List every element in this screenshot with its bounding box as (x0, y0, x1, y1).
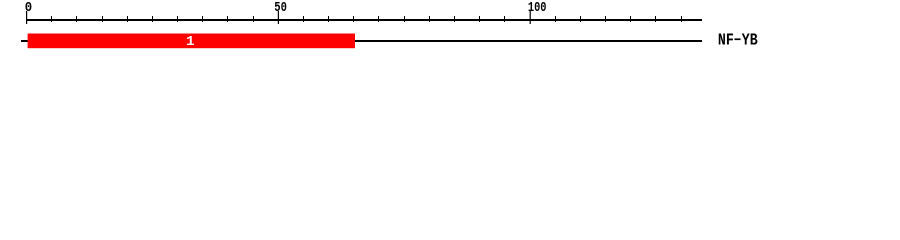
minor tick 80 (429, 16, 430, 22)
minor tick 85 (454, 16, 455, 22)
svg-text:NF: NF (718, 31, 734, 50)
domain box 1 (red) (28, 34, 355, 49)
minor tick 55 (303, 16, 304, 22)
minor tick 120 (630, 16, 631, 22)
major tick 0 (26, 11, 27, 24)
minor tick 110 (580, 16, 581, 22)
svg-text:1: 1 (186, 34, 194, 50)
major tick 100 (530, 11, 531, 24)
background (0, 0, 900, 58)
minor tick 10 (76, 16, 77, 22)
protein backbone line (21, 40, 702, 42)
minor tick 70 (378, 16, 379, 22)
svg-text:50: 50 (274, 1, 287, 16)
minor tick 130 (681, 16, 682, 22)
protein name label hyphen (735, 38, 741, 40)
minor tick 105 (555, 16, 556, 22)
ruler baseline (26, 19, 702, 21)
minor tick 25 (152, 16, 153, 22)
minor tick 90 (479, 16, 480, 22)
minor tick 95 (504, 16, 505, 22)
minor tick 65 (353, 16, 354, 22)
minor tick 20 (127, 16, 128, 22)
minor tick 40 (227, 16, 228, 22)
minor tick 15 (102, 16, 103, 22)
svg-text:0: 0 (25, 1, 32, 16)
minor tick 30 (177, 16, 178, 22)
minor tick 115 (605, 16, 606, 22)
major tick 50 (278, 11, 279, 24)
svg-text:YB: YB (742, 31, 758, 50)
minor tick 125 (655, 16, 656, 22)
minor tick 45 (253, 16, 254, 22)
minor tick 75 (404, 16, 405, 22)
minor tick 60 (328, 16, 329, 22)
minor tick 35 (202, 16, 203, 22)
minor tick 5 (51, 16, 52, 22)
